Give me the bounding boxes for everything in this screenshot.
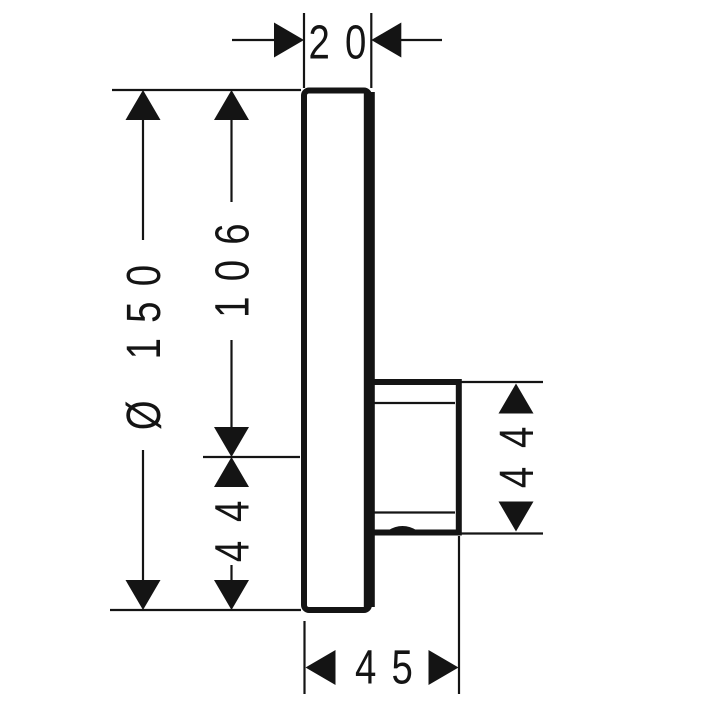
tick line at 106/44 junction [203, 456, 300, 458]
dimension O150: arrowheads [126, 90, 161, 120]
dimension 44 left: shaft [230, 565, 232, 582]
svg-text:44: 44 [207, 482, 260, 562]
dimension 20: shafts [232, 39, 275, 41]
faceplate (side view) [304, 91, 369, 611]
svg-text:45: 45 [355, 642, 428, 695]
body inner line bottom [374, 511, 455, 513]
dimension 106: shafts [230, 118, 232, 430]
faceplate thick right edge [364, 92, 375, 607]
dimension O150: shafts [142, 118, 144, 240]
body inner line top [374, 402, 455, 404]
dimension 20: extension lines [232, 13, 442, 88]
dimension 45: arrowheads [306, 650, 336, 685]
dimension 20: arrowheads [274, 23, 304, 58]
svg-text:44: 44 [491, 408, 544, 488]
dimension O150: extension lines [110, 90, 301, 610]
svg-text:106: 106 [207, 208, 260, 318]
dimension 44 right: arrowheads [499, 384, 534, 414]
valve body (rough-in housing, side view) [368, 382, 459, 533]
dimension 45: extension lines [305, 536, 460, 694]
svg-text:Ø 150: Ø 150 [118, 250, 171, 431]
body bottom bump detail [388, 527, 417, 532]
dimension 44 right: extension lines [460, 382, 543, 534]
dimension 106: arrowheads [214, 90, 249, 120]
svg-text:20: 20 [308, 17, 381, 70]
dimension 44 left: arrowheads [214, 457, 249, 487]
